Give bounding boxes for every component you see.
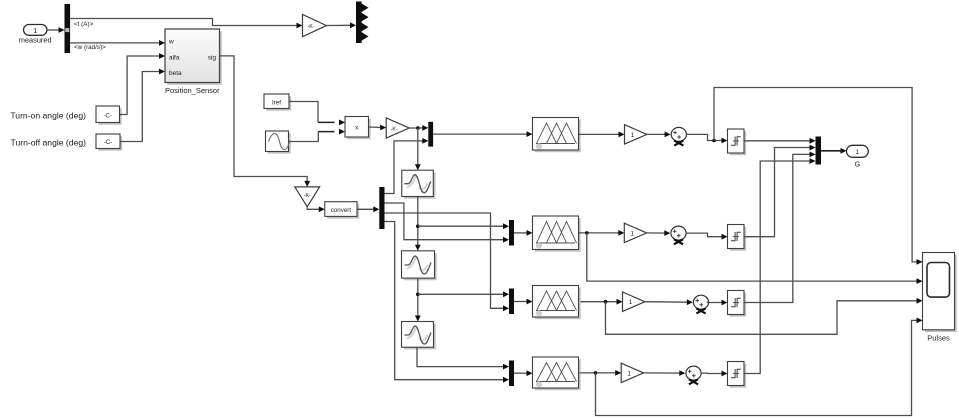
wire measured to bus selector xyxy=(47,27,65,33)
sum block row4 xyxy=(686,366,701,384)
wire gain to mux row1 and lookup1 xyxy=(409,125,428,170)
wire sum3 to relay3 xyxy=(708,300,728,306)
svg-text:beta: beta xyxy=(169,70,182,77)
outport 1 "G" xyxy=(847,145,869,168)
svg-text:-C-: -C- xyxy=(104,113,112,119)
inport 1 "measured" xyxy=(19,25,52,45)
demux theta xyxy=(379,187,384,229)
fuzzy logic controller 4 xyxy=(533,357,581,390)
gain 1 (row2) xyxy=(624,223,646,242)
fuzzy logic controller 1 xyxy=(533,118,581,153)
label <I (A)> xyxy=(74,21,94,28)
svg-text:1: 1 xyxy=(855,149,859,156)
lookup table 1 xyxy=(402,170,436,199)
wire lookup1 to lookup2 and mux row2 xyxy=(415,197,509,251)
svg-text:sig: sig xyxy=(208,55,217,62)
relay 2 xyxy=(728,225,747,251)
svg-text:-C-: -C- xyxy=(104,140,112,146)
svg-text:1: 1 xyxy=(630,230,634,237)
wire convert to demux theta xyxy=(357,206,379,212)
label Turn-off angle (deg) xyxy=(11,137,87,147)
label <w (rad/s)> xyxy=(74,44,106,51)
wire relay3 to mux out xyxy=(744,152,816,303)
source sine wave xyxy=(266,131,291,154)
lookup table 2 xyxy=(402,251,437,280)
wire fuzzy2 to gain (junction to scope) xyxy=(579,230,923,284)
sum block row3 xyxy=(693,295,708,313)
constant -C- (turn-off) xyxy=(96,134,122,151)
mux row3 xyxy=(509,289,514,315)
wire sig to down gain xyxy=(220,56,311,187)
scope Pulses xyxy=(923,253,957,343)
wire sum1 to relay1 xyxy=(686,134,727,143)
svg-text:1: 1 xyxy=(627,370,631,377)
relay 4 xyxy=(728,362,747,388)
svg-text:Turn-off angle (deg): Turn-off angle (deg) xyxy=(11,137,87,147)
svg-text:convert: convert xyxy=(331,207,352,214)
svg-text:-K-: -K- xyxy=(304,193,311,199)
svg-text:Position_Sensor: Position_Sensor xyxy=(165,86,220,95)
wire sine to product xyxy=(289,129,346,142)
wire mux row2 to fuzzy2 xyxy=(514,230,533,236)
gain 1 (row4) xyxy=(621,363,643,382)
demux (unconnected outputs) xyxy=(356,2,369,44)
svg-text:Iref: Iref xyxy=(272,99,281,106)
wire gain4 to sum4 xyxy=(644,370,686,376)
svg-text:1: 1 xyxy=(33,28,37,35)
constant Iref xyxy=(264,94,291,111)
gain 1 (row3) xyxy=(623,292,645,311)
wire theta4 to mux row4 xyxy=(385,222,510,383)
gain 1 (row1) xyxy=(625,125,647,144)
wire mux row3 to fuzzy3 xyxy=(514,299,533,305)
sum block row2 xyxy=(671,226,686,244)
svg-text:-K-: -K- xyxy=(308,24,315,30)
mux row4 xyxy=(509,361,514,387)
subsystem Position_Sensor xyxy=(165,29,222,95)
wire Iref to product xyxy=(289,102,345,126)
bus selector xyxy=(65,4,71,53)
wire turn-on to alfa xyxy=(120,53,166,114)
wire turn-off to beta xyxy=(120,69,165,142)
wire gain1 to sum1 xyxy=(647,132,671,138)
svg-text:G: G xyxy=(855,162,860,169)
mux row2 xyxy=(509,220,514,246)
wire lookup3 to mux row4 xyxy=(417,347,509,369)
wire gain2 to sum2 xyxy=(647,230,671,236)
svg-text:1: 1 xyxy=(629,299,633,306)
wire gain to demux xyxy=(327,22,357,28)
constant -C- (turn-on) xyxy=(96,106,122,125)
gain -K- (down) xyxy=(295,187,320,207)
wire theta3 to mux row3 xyxy=(385,213,510,311)
wire fuzzy4 to gain (junction to scope) xyxy=(580,318,923,416)
wire sum4 to relay4 xyxy=(701,371,727,377)
wire mux out to outport G xyxy=(821,148,847,154)
relay 1 xyxy=(728,129,747,155)
svg-text:1: 1 xyxy=(631,132,635,139)
mux out xyxy=(816,137,822,165)
svg-text:measured: measured xyxy=(19,36,52,45)
wire down gain to convert xyxy=(307,206,325,212)
wire relay2 to mux out xyxy=(744,145,816,237)
svg-text:Pulses: Pulses xyxy=(927,333,950,342)
wire <I (A)> to gain -K- xyxy=(70,19,302,29)
gain -K- (top) xyxy=(303,15,327,37)
wire <w (rad/s)> to Position_Sensor xyxy=(70,40,165,46)
fuzzy logic controller 3 xyxy=(533,286,581,320)
wire gain3 to sum3 xyxy=(645,299,693,305)
wire mux row1 to fuzzy1 xyxy=(433,131,532,137)
fuzzy logic controller 2 xyxy=(533,216,581,252)
svg-text:Turn-on angle (deg): Turn-on angle (deg) xyxy=(10,111,86,121)
svg-text:x: x xyxy=(355,126,358,132)
svg-text:<w (rad/s)>: <w (rad/s)> xyxy=(74,44,106,51)
gain -K- (current ref) xyxy=(386,118,409,138)
svg-text:-K-: -K- xyxy=(391,126,398,132)
wire relay1 to mux out xyxy=(744,138,816,144)
mux row1 xyxy=(428,122,433,147)
data type conversion "convert" xyxy=(325,202,359,219)
lookup table 3 xyxy=(402,322,436,350)
wire sum1 feedback to scope xyxy=(714,88,923,265)
wire lookup2 to lookup3 and mux row3 xyxy=(415,278,509,321)
wire fuzzy3 to gain (junction to scope) xyxy=(581,298,923,334)
wire theta2 to mux row2 xyxy=(385,203,510,243)
svg-text:w: w xyxy=(168,39,174,46)
wire fuzzy1 to gain1 xyxy=(579,132,625,138)
svg-text:alfa: alfa xyxy=(169,55,180,62)
wire mux row4 to fuzzy4 xyxy=(514,370,533,376)
wire theta1 to mux row1 xyxy=(385,138,429,194)
wire sum2 to relay2 xyxy=(686,233,727,240)
svg-text:<I (A)>: <I (A)> xyxy=(74,21,94,28)
product x xyxy=(345,117,371,140)
label Turn-on angle (deg) xyxy=(10,111,86,121)
sum block row1 xyxy=(671,127,686,145)
wire product to gain xyxy=(369,125,387,131)
wire relay4 to mux out xyxy=(744,158,816,373)
relay 3 xyxy=(728,291,747,317)
